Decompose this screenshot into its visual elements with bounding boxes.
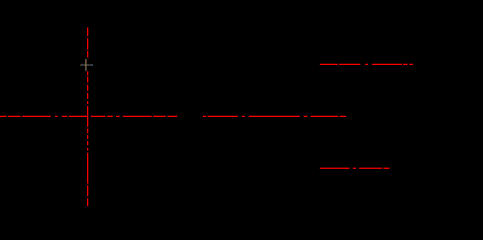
crosshair cursor blue speck at right arm tip: [92, 64, 93, 66]
top-right centerline (red dash-dot) at y=64.35: [320, 63, 413, 65]
crosshair cursor horizontal arm: [80, 64, 93, 66]
vertical centerline (red dash-dot) at x=87.65: [87, 27, 90, 206]
crosshair cursor vertical arm (tan): [85, 59, 87, 70]
crosshair cursor blue-gray speck at bottom of vertical arm: [85, 69, 87, 72]
horizontal main centerline (red dash-dot) at y=116.35: [0, 115, 346, 117]
bottom-right centerline (red dash-dot) at y=168.3: [320, 167, 390, 169]
